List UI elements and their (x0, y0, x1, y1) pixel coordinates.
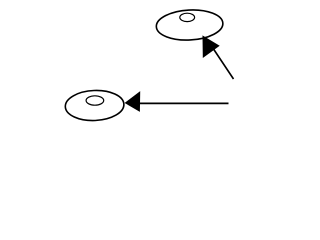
inner nucleus ellipse (bottom node) (86, 96, 104, 105)
arrowhead pointing at top node (203, 36, 219, 57)
node ellipse (bottom left) (65, 89, 125, 121)
inner nucleus ellipse (top node) (180, 13, 195, 21)
arrow shaft (horizontal wire) (140, 102, 229, 104)
arrow shaft (diagonal wire) (214, 49, 234, 79)
node ellipse (top right) (156, 8, 224, 41)
arrowhead pointing at bottom node (126, 92, 140, 111)
